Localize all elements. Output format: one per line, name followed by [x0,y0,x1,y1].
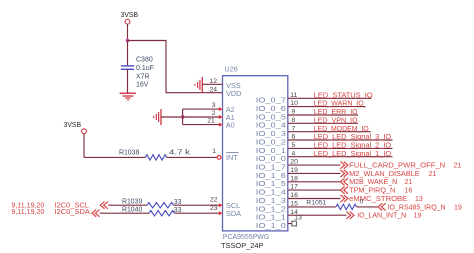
off-page connector FULL_CARD_PWR_OFF_N [340,161,461,170]
svg-text:9,11,19,20: 9,11,19,20 [11,209,44,216]
ground at VSS pin 12 [195,77,202,93]
wire pin13 stub [288,223,292,225]
svg-text:22: 22 [210,196,218,203]
off-page connector M2_WLAN_DISABLE [340,169,436,178]
svg-text:21: 21 [405,179,413,186]
wire R1040 to SDA pin [175,211,223,215]
wire net LED_VPN_IO [288,122,358,124]
wire ground to junction A [161,116,183,118]
svg-text:0: 0 [360,198,364,205]
power symbol 3VSB (left) [64,122,87,134]
wire R1038 to INT [167,156,217,158]
U26 pin 3 A2 [212,102,235,114]
U26 pin 15 IO_1_2 [256,201,298,214]
off-page connector eMMC_STROBE [340,194,422,203]
U26 pin 19 IO_1_6 [256,167,298,180]
wire SCL to R1039 [108,204,147,206]
wire net LED_LED_Signal_1_IO [288,156,393,158]
wire net LED_MODEM_IO [288,131,371,133]
off-page connector TPM_PIRQ_N [340,186,412,195]
resistor R1039 [122,198,182,208]
resistor R1051 [306,198,363,209]
U26 pin 6 IO_0_2 [256,134,296,147]
svg-text:IO_LAN_INT_N: IO_LAN_INT_N [357,211,406,220]
svg-text:21: 21 [454,163,462,170]
svg-text:13: 13 [294,215,302,222]
net label LED_LED_Signal_3_IO [314,132,392,141]
U26 pin 16 IO_1_3 [256,192,298,205]
svg-text:U26: U26 [225,65,238,74]
svg-text:21: 21 [429,171,437,178]
power symbol 3VSB (top) [121,12,139,24]
net label LED_ERR_IO [314,107,358,116]
wire to A1 [183,115,223,119]
wire A bus vertical [182,109,184,125]
off-page connector I2C0_SDA [92,210,100,217]
U26 pin 10 IO_0_6 [256,100,298,113]
svg-text:SDA: SDA [226,209,241,218]
svg-text:R1040: R1040 [122,207,142,214]
U26 pin 2 A1 [212,110,235,122]
wire junction to C380 [127,41,129,66]
U26 pin 12 VSS [209,78,240,90]
ground at A2/A1/A0 [154,109,161,125]
svg-text:4.7 k: 4.7 k [169,149,191,156]
svg-text:3VSB: 3VSB [121,12,139,19]
net I2C0_SDA pages [11,209,44,216]
off-page connector M2B_WAKE_N [340,177,412,186]
wire net TPM_PIRQ_N [288,189,341,191]
wire C380 to ground [127,69,129,93]
wire net LED_WARN_IO [288,106,366,108]
net I2C0_SCL pages [11,202,44,209]
net label LED_VPN_IO [314,115,358,124]
svg-text:1: 1 [212,148,216,155]
svg-text:19: 19 [414,213,422,220]
svg-text:R1038: R1038 [119,149,139,156]
wire net M2B_WAKE_N [288,181,341,183]
svg-text:23: 23 [210,205,218,212]
net label LED_MODEM_IO [314,124,369,133]
svg-text:2: 2 [212,110,216,117]
wire to A0 [183,123,223,127]
svg-text:I2C0_SDA: I2C0_SDA [54,209,90,216]
wire 3VSB down [83,134,85,158]
wire to A2 [183,107,223,111]
wire net LED_STATUS_IO [288,97,372,99]
svg-text:3: 3 [212,102,216,109]
svg-text:LED_LED_Signal_1_IO: LED_LED_Signal_1_IO [314,149,392,158]
U26 pin 1 INT (bubble) [212,148,238,162]
net label LED_LED_Signal_2_IO [314,141,392,150]
U26 pin 13 IO_1_0 [256,215,302,230]
U26 pin 18 IO_1_5 [256,175,298,188]
svg-text:19: 19 [454,204,462,211]
svg-text:12: 12 [209,78,217,85]
svg-text:R1039: R1039 [122,198,142,205]
IC U26 PCA9555PWG body [223,65,288,231]
junction node 3VSB rail [126,39,130,43]
wire net LED_LED_Signal_2_IO [288,147,393,149]
IC value label PCA9555PWG [223,234,269,241]
junction node A1 [181,115,185,119]
U26 pin 7 IO_0_3 [256,125,296,138]
svg-text:TSSOP_24P: TSSOP_24P [221,243,264,250]
wire pin15 to R1051 [288,206,336,208]
svg-text:PCA9555PWG: PCA9555PWG [223,234,269,241]
off-page connector IO_RS485_IRQ_N [378,202,462,211]
svg-text:VDD: VDD [226,89,241,98]
U26 pin 21 A0 [207,117,235,129]
U26 pin 20 IO_1_7 [256,159,298,172]
U26 pin 23 SDA [210,205,241,218]
U26 pin 9 IO_0_5 [256,109,296,122]
U26 pin 8 IO_0_4 [256,117,296,130]
off-page connector I2C0_SCL [100,202,108,209]
wire R1039 to SCL pin [174,203,223,207]
net label LED_WARN_IO [314,99,364,108]
svg-text:C380: C380 [136,57,153,64]
wire net eMMC_STROBE [288,198,341,200]
svg-text:16V: 16V [136,81,149,88]
svg-text:24: 24 [209,87,217,94]
U26 pin 5 IO_0_1 [256,142,296,155]
no-connect at pin 13 [292,221,297,226]
svg-text:21: 21 [207,117,215,124]
wire 3VSB to R1038 [84,156,146,158]
wire R1051 to off-page [357,206,379,208]
U26 pin 22 SCL [210,196,240,210]
net label LED_LED_Signal_1_IO [314,149,392,158]
wire net LED_LED_Signal_3_IO [288,139,393,141]
svg-text:INT: INT [226,153,238,162]
off-page connector IO_LAN_INT_N [346,211,421,220]
U26 pin 11 IO_0_7 [256,92,298,105]
wire net LED_ERR_IO [288,114,358,116]
wire 3VSB to junction [127,24,129,40]
wire net M2_WLAN_DISABLE [288,172,341,174]
wire pin14 [288,214,347,216]
svg-text:IO_1_0: IO_1_0 [256,221,286,230]
wire junction to VDD pin 24 [128,41,223,93]
IC package label TSSOP_24P [221,243,264,250]
resistor R1038 [119,149,191,160]
U26 pin 17 IO_1_4 [256,184,298,197]
svg-text:3VSB: 3VSB [64,122,82,129]
net label LED_STATUS_IO [314,90,373,99]
wire net FULL_CARD_PWR_OFF_N [288,164,341,166]
svg-text:R1051: R1051 [306,200,326,207]
svg-text:A0: A0 [226,121,235,130]
wire ground to VSS [202,83,222,85]
net label I2C0_SDA [54,209,90,216]
svg-text:X7R: X7R [136,73,150,80]
resistor R1040 [122,207,182,216]
ground below C380 [120,93,136,100]
U26 pin 4 IO_0_0 [256,150,296,163]
net label I2C0_SCL [54,202,89,209]
wire SDA to R1040 [100,212,149,214]
U26 pin 24 VDD [209,87,241,99]
svg-text:0.1uF: 0.1uF [136,65,154,72]
capacitor C380 [121,57,154,89]
U26 pin 14 IO_1_1 [256,209,298,222]
